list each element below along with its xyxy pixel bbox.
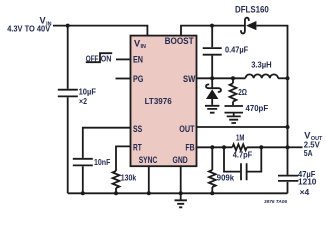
capacitor C4 470pF snubber <box>225 106 244 113</box>
svg-text:4.3V TO 40V: 4.3V TO 40V <box>7 25 50 34</box>
wire boost cap to SW node <box>211 56 213 79</box>
svg-text:RT: RT <box>133 142 142 152</box>
node FB 909k junction <box>210 145 214 149</box>
wire EN <box>116 58 131 60</box>
svg-text:FB: FB <box>185 142 194 152</box>
svg-text:PG: PG <box>133 74 143 84</box>
wire SS to soft-start cap <box>83 128 131 158</box>
svg-text:GND: GND <box>173 155 188 165</box>
node OUT rail junction <box>286 125 290 129</box>
wire SW <box>197 77 246 79</box>
svg-text:SS: SS <box>133 124 142 134</box>
wire 909k to rail <box>211 187 213 193</box>
IC U1 LT3976 body <box>131 36 197 167</box>
svg-text:×4: ×4 <box>300 187 310 197</box>
diode D2 anode triangle <box>206 89 218 99</box>
svg-text:DFLS160: DFLS160 <box>235 5 269 15</box>
wire VOUT stub <box>288 146 303 148</box>
node FB VOUT rail junction <box>286 145 290 149</box>
ground symbol below catch diode <box>205 106 219 113</box>
svg-text:1210: 1210 <box>298 177 317 187</box>
node FB 4.7pF right junction <box>259 145 263 149</box>
wire FB to 909k <box>211 147 213 170</box>
wire 1M to VOUT rail <box>247 146 288 148</box>
capacitor C3 0.47uF boost <box>203 48 222 55</box>
wire soft-start cap to rail <box>82 166 84 193</box>
svg-text:5A: 5A <box>304 148 313 158</box>
wire snubber cap to ground <box>233 114 235 116</box>
IC pin label VIN <box>134 38 146 50</box>
wire OUT <box>197 126 288 128</box>
svg-text:BOOST: BOOST <box>165 36 194 46</box>
svg-text:SYNC: SYNC <box>139 155 158 165</box>
wire VIN to input cap <box>67 26 69 89</box>
wire inductor to VOUT rail <box>278 77 288 79</box>
node boost cap junction <box>210 24 214 28</box>
svg-text:10nF: 10nF <box>94 157 110 167</box>
wire VIN input lead <box>53 26 147 36</box>
wire D1 anode to right rail <box>256 26 287 175</box>
wire 4.7pF right arm <box>248 147 262 171</box>
svg-text:909k: 909k <box>217 172 235 182</box>
svg-text:470pF: 470pF <box>246 103 269 113</box>
ground symbol below GND <box>175 193 187 207</box>
node SW snubber junction <box>231 76 235 80</box>
node 130k rail junction <box>114 191 118 195</box>
diode D2 catch schottky cathode bar <box>206 84 221 92</box>
wire 4.7pF left arm <box>224 147 240 171</box>
label VIN input <box>40 16 52 28</box>
wire BOOST <box>181 26 245 36</box>
wire D2 anode to ground <box>211 99 213 105</box>
capacitor C5 4.7pF feedforward <box>241 163 247 180</box>
node SW catch diode junction <box>210 76 214 80</box>
node SYNC rail junction <box>147 191 151 195</box>
svg-text:SW: SW <box>183 74 196 84</box>
svg-text:OUT: OUT <box>179 124 194 134</box>
wire boost junction to boost cap <box>211 26 213 48</box>
capacitor C6 47uF output <box>278 176 298 181</box>
inductor L1 3.3uH <box>246 74 279 78</box>
diode D1 anode triangle <box>246 21 256 30</box>
svg-text:2Ω: 2Ω <box>238 87 247 97</box>
ground rail wire <box>68 192 288 194</box>
node SS-cap rail junction <box>81 191 85 195</box>
wire input cap to ground rail <box>67 97 69 193</box>
resistor R3 909k <box>209 170 216 187</box>
wire 130k to rail <box>115 188 117 193</box>
node VIN junction <box>66 24 70 28</box>
ground symbol below snubber <box>227 116 241 123</box>
wire SYNC to rail <box>148 166 150 193</box>
svg-text:0.47µF: 0.47µF <box>225 44 248 54</box>
node inductor VOUT junction <box>286 76 290 80</box>
wire PG stub <box>116 78 131 80</box>
svg-text:EN: EN <box>133 54 143 64</box>
svg-text:3976 TA06: 3976 TA06 <box>264 199 287 204</box>
wire RT <box>116 146 131 171</box>
wire FB <box>197 146 233 148</box>
resistor R4 1M feedback <box>232 144 246 150</box>
svg-text:130k: 130k <box>121 172 137 182</box>
capacitor C2 10nF soft-start <box>73 159 93 166</box>
svg-text:3.3µH: 3.3µH <box>251 59 272 69</box>
resistor R1 130k <box>113 171 120 188</box>
wire SW to catch diode <box>211 78 213 88</box>
wire GND to rail <box>180 166 182 193</box>
svg-text:4.7pF: 4.7pF <box>233 150 252 160</box>
wire snubber resistor to cap <box>232 102 234 106</box>
diode D1 DFLS160 schottky cathode bar <box>241 18 249 34</box>
label VOUT <box>304 131 323 142</box>
svg-text:×2: ×2 <box>79 96 87 106</box>
wire SW to snubber resistor <box>232 78 234 83</box>
svg-text:ON: ON <box>101 54 112 63</box>
svg-text:LT3976: LT3976 <box>145 96 172 106</box>
node 909k rail junction <box>210 191 214 195</box>
svg-text:10µF: 10µF <box>79 86 96 96</box>
capacitor C1 10uF input <box>58 90 78 97</box>
wire output cap to rail <box>287 182 289 193</box>
svg-text:IN: IN <box>141 44 146 50</box>
svg-text:OFF: OFF <box>86 54 99 63</box>
node GND rail junction <box>179 191 183 195</box>
resistor R2 2ohm snubber <box>230 83 237 101</box>
node FB 4.7pF left junction <box>222 145 226 149</box>
switch OFF/ON symbol <box>86 53 112 62</box>
svg-text:1M: 1M <box>236 132 244 142</box>
